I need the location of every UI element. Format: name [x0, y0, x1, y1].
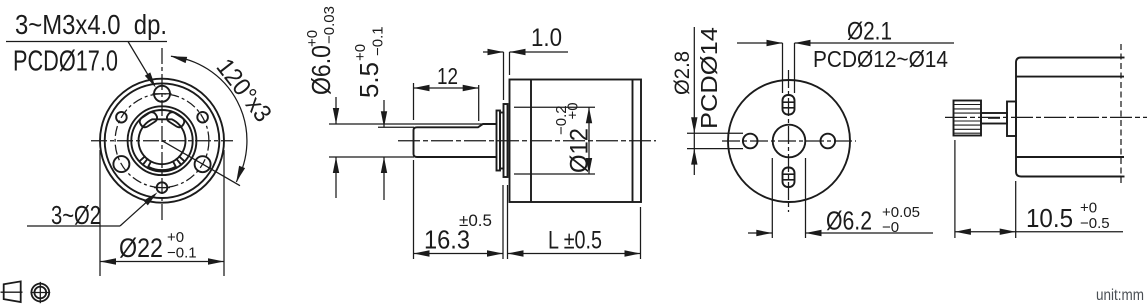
view2 ext line shaft bottom: [329, 156, 414, 158]
view2 centerline: [398, 140, 656, 142]
view1 dim 22 line: [100, 258, 224, 264]
view2 body outline: [510, 80, 642, 203]
view3 dim 2.8 line: [691, 27, 697, 175]
view2 dim 1.0 ext right: [509, 52, 511, 75]
svg-text:±0.5: ±0.5: [459, 211, 492, 230]
svg-text:−0.1: −0.1: [370, 26, 387, 56]
projection symbol cone: [1, 281, 23, 302]
view2 dim 6 line: [333, 97, 339, 198]
svg-text:Ø6.0: Ø6.0: [306, 45, 336, 95]
view1 label 120x3: [211, 53, 277, 127]
svg-text:−0: −0: [882, 219, 899, 236]
svg-text:Ø6.2: Ø6.2: [826, 206, 872, 236]
svg-text:12: 12: [437, 63, 458, 89]
view1 hole M3 top: [154, 86, 170, 102]
svg-text:PCDØ17.0: PCDØ17.0: [13, 46, 118, 78]
view2 dim 12 line: [414, 85, 479, 91]
svg-text:unit:mm: unit:mm: [1096, 287, 1144, 304]
view3 dim 2.1 ext right: [794, 43, 796, 93]
view2 dim 12 ext right: [478, 85, 480, 121]
view4 motor body outline: [1016, 58, 1121, 177]
svg-text:Ø2.8: Ø2.8: [671, 51, 694, 95]
view1 dim 22 ext left: [99, 150, 101, 276]
view2 dim 5.5 line: [381, 100, 387, 200]
view1 hole phi2 bottom: [157, 182, 168, 193]
svg-text:−0.03: −0.03: [321, 6, 338, 44]
view1 outer flange circle Ø22: [100, 79, 224, 203]
view2 washer large: [504, 104, 508, 177]
view3 hole right 2.8: [821, 134, 836, 149]
view1 hole M3 lower-left: [113, 156, 129, 172]
view1 leader phi2: [27, 192, 158, 226]
view4 dim 10.5 line: [955, 229, 1123, 235]
view3 dim 2.8 ext bottom: [687, 148, 743, 150]
view2 dim 12 ext left: [413, 83, 415, 120]
view1 hole phi2 upper-left: [116, 112, 127, 123]
svg-text:−0.1: −0.1: [167, 245, 197, 262]
view4 body top tick: [1121, 57, 1125, 59]
svg-text:3~M3x4.0 dp.: 3~M3x4.0 dp.: [15, 9, 167, 40]
view3 dim 6.2 text: [826, 206, 872, 236]
view3 slot top: [783, 95, 795, 115]
unit note: [1096, 287, 1144, 304]
view1 dim arc 120deg: [171, 56, 247, 182]
view2 dim 12 text: [437, 63, 458, 89]
view2 dim L ext left: [507, 185, 509, 259]
view4 dim 10.5 ext right: [1015, 181, 1017, 238]
view3 dim 2.1 ext left: [782, 43, 784, 93]
view3 outer circle: [728, 80, 850, 202]
view1 dim 22 text: [119, 233, 163, 263]
view2 ext line shaft top dia: [329, 123, 483, 125]
svg-text:+0: +0: [167, 229, 184, 246]
view1 recess circle: [128, 106, 197, 175]
projection symbol circles: [30, 282, 50, 303]
view3 slot bottom: [783, 168, 795, 188]
view3 dim 6.2 tol: [882, 204, 920, 236]
view1 note PCD17: [13, 46, 118, 78]
svg-text:+0: +0: [304, 30, 321, 47]
view1 hole phi2 upper-right: [197, 112, 208, 123]
view1 flange chamfer circle: [105, 83, 220, 198]
svg-text:L ±0.5: L ±0.5: [548, 227, 602, 255]
view1 ear tab upper-right: [165, 110, 186, 129]
view2 dim 1.0 text: [531, 24, 562, 52]
view2 dim L ext right: [640, 207, 642, 259]
view1 dim 22 tol: [167, 229, 197, 262]
view2 dim 16.3 ext right: [502, 185, 504, 259]
svg-text:PCDØ14: PCDØ14: [696, 27, 722, 129]
view2 shaft outline: [414, 124, 497, 157]
view3 vertical centerline: [788, 70, 790, 212]
view2 dim 12dia ext top: [514, 106, 595, 108]
view4 motor shaft: [981, 113, 1007, 124]
view2 body rear inner line: [632, 80, 634, 203]
view2 dim 6 text: [304, 6, 338, 95]
svg-text:1.0: 1.0: [531, 24, 562, 52]
svg-text:5.5: 5.5: [354, 62, 384, 98]
view2 dim 16.3 line: [414, 250, 504, 256]
view3 label PCD12-14: [813, 46, 948, 72]
view4 dim 10.5 tol: [1080, 200, 1110, 233]
view2 ext line shaft flat: [378, 126, 414, 128]
view3 slot bottom ticks: [783, 174, 795, 180]
view4 shaft centerline dash: [988, 117, 1000, 119]
view4 pinion gear: [954, 101, 982, 136]
view1 note 3~phi2: [51, 200, 101, 230]
view4 body bottom tick: [1121, 176, 1125, 178]
view2 washer mid: [500, 113, 504, 169]
view1 leader M3: [6, 42, 167, 88]
view3 dim 2.8 text: [671, 51, 694, 95]
view4 bearing boss: [1007, 102, 1016, 137]
view1 notch lower-right: [176, 156, 184, 164]
view4 centerline: [945, 116, 1147, 118]
view4 motor body line upper: [1016, 76, 1124, 78]
view2 dim 1.0 line: [483, 49, 568, 55]
view3 horizontal centerline: [722, 140, 856, 142]
view1 note 3~M3x4.0 dp.: [15, 9, 167, 40]
view4 motor body line lower: [1016, 156, 1124, 158]
svg-text:Ø22: Ø22: [119, 233, 163, 263]
view3 dim 2.1 line: [737, 40, 954, 46]
view1 notch lower-left: [140, 156, 148, 164]
view2 dim L line: [508, 250, 641, 256]
view3 dim 6.2 ext right: [805, 158, 807, 238]
view4 dim 10.5 ext left: [954, 140, 956, 238]
view1 bottom tab: [148, 161, 176, 170]
view1 dim 22 ext right: [223, 150, 225, 276]
view2 dim 12dia ext bottom: [514, 173, 595, 175]
view2 dim 16.3 text: [424, 211, 492, 255]
svg-text:+0: +0: [565, 102, 582, 119]
view3 slot top ticks: [783, 102, 795, 108]
view4 dim 10.5 text: [1026, 203, 1073, 233]
view3 dim 6.2 ext left: [771, 158, 773, 238]
view3 dim 6.2 line: [748, 230, 933, 236]
view4 break line dashed: [1120, 44, 1122, 186]
view2 dim 16.3 ext left: [413, 160, 415, 259]
view1 recess inner circle: [131, 110, 192, 171]
view1 ear tab upper-left: [138, 110, 159, 129]
view1 horizontal centerline: [91, 140, 233, 142]
view1 top hole tick: [153, 93, 172, 95]
view3 label PCD14: [696, 27, 722, 129]
view2 dim L text: [548, 227, 602, 255]
view2 body front plate line: [530, 80, 532, 203]
svg-text:−0.5: −0.5: [1080, 215, 1110, 232]
svg-text:+0: +0: [352, 44, 369, 61]
view1 output boss with flat: [138, 119, 185, 164]
svg-text:+0: +0: [1080, 200, 1097, 217]
view2 dim 1.0 ext left: [503, 52, 505, 100]
view3 dim 2.1 text: [847, 18, 892, 46]
view1 radial line 330deg: [162, 141, 240, 186]
svg-text:10.5: 10.5: [1026, 203, 1073, 233]
view3 center hole 6.2: [773, 125, 806, 158]
svg-text:PCDØ12~Ø14: PCDØ12~Ø14: [813, 46, 948, 72]
view3 hole left 2.8: [743, 134, 758, 149]
view1 hole M3 lower-right: [195, 156, 211, 172]
view1 vertical centerline: [161, 48, 163, 222]
view2 dim 12dia text: [553, 102, 594, 173]
view2 dim 5.5 text: [352, 26, 387, 98]
svg-text:Ø2.1: Ø2.1: [847, 18, 892, 46]
view1 bottom hole tick: [154, 187, 170, 189]
view3 dim 2.8 ext top: [687, 132, 743, 134]
view2 dim 12dia line: [586, 107, 592, 174]
view1 PCD17 bolt-circle (centerline): [115, 94, 209, 188]
view2 washer small: [497, 111, 501, 171]
